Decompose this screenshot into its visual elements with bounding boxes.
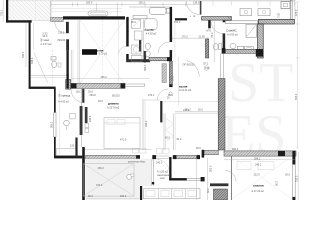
svg-text:80/210: 80/210 xyxy=(58,39,66,42)
furniture above bottom band xyxy=(133,148,139,153)
svg-text:240.2: 240.2 xyxy=(255,163,262,166)
kitchen room thin side walls xyxy=(77,20,79,83)
top-center thick wall xyxy=(63,16,125,19)
svg-text:525.0: 525.0 xyxy=(295,93,298,100)
duct shaft xyxy=(162,64,166,83)
niche walls center xyxy=(144,51,147,63)
vertical hatched wall below bathroom xyxy=(169,61,172,85)
svg-text:120.0: 120.0 xyxy=(70,145,77,148)
svg-text:9.73 м2: 9.73 м2 xyxy=(99,53,108,56)
svg-text:БаняВС: БаняВС xyxy=(145,28,155,32)
wardrobe strip xyxy=(163,114,165,151)
svg-text:кухня: кухня xyxy=(179,85,188,89)
living room xyxy=(80,89,82,147)
svg-text:288.2: 288.2 xyxy=(254,157,261,160)
svg-text:ОП 90/210: ОП 90/210 xyxy=(183,64,196,67)
bottom right room top wall xyxy=(224,151,296,156)
window line right of band xyxy=(125,84,145,86)
svg-text:85.0: 85.0 xyxy=(211,32,214,37)
svg-text:кухненски бокс: кухненски бокс xyxy=(128,160,146,163)
bay bottom thick wall xyxy=(54,156,82,159)
svg-text:236.8: 236.8 xyxy=(89,115,92,122)
svg-text:92.0: 92.0 xyxy=(43,35,48,38)
dim line left of wall xyxy=(25,23,27,67)
axis marker circles xyxy=(204,66,208,70)
terrace dashed extension lines xyxy=(35,0,37,20)
svg-text:343.0: 343.0 xyxy=(22,51,25,58)
kitchen X diagonals xyxy=(80,20,124,83)
big bottom room floor fill xyxy=(86,159,152,200)
svg-text:360.2: 360.2 xyxy=(232,148,239,151)
svg-text:36.2: 36.2 xyxy=(276,181,279,186)
svg-text:52.0: 52.0 xyxy=(277,13,280,18)
svg-text:дневна: дневна xyxy=(108,102,119,106)
svg-text:A 19.78 м2: A 19.78 м2 xyxy=(107,107,120,110)
svg-text:94.0: 94.0 xyxy=(98,100,103,103)
svg-text:спалня: спалня xyxy=(253,183,264,187)
window band y49.5 xyxy=(225,49,257,53)
vertical wall x170 with door gap xyxy=(170,7,173,42)
svg-text:170.2: 170.2 xyxy=(182,36,189,39)
right outside dim line xyxy=(297,152,299,200)
right edge dim line xyxy=(297,2,299,148)
horizontal wall mid-left xyxy=(29,87,56,89)
right wall entry xyxy=(290,0,292,20)
stair tread lines xyxy=(51,7,122,9)
svg-text:ОТ.1: ОТ.1 xyxy=(203,63,209,66)
left wall lower (with window) xyxy=(54,88,56,113)
svg-text:260.8: 260.8 xyxy=(90,94,97,97)
inner line right of wall xyxy=(33,23,35,50)
svg-text:35.2: 35.2 xyxy=(172,76,175,81)
window below xyxy=(221,54,224,79)
toilet bowl xyxy=(51,57,56,60)
vertical wall x126 (door gap y46.5-54) xyxy=(126,17,129,47)
dashed vertical xyxy=(51,50,53,85)
left edge dim beside terrace xyxy=(2,0,4,22)
svg-text:85.0: 85.0 xyxy=(165,137,170,140)
svg-text:28.0: 28.0 xyxy=(196,147,201,150)
top dimension line xyxy=(51,3,201,5)
svg-text:A 4.28 м2: A 4.28 м2 xyxy=(146,33,158,36)
black shaft block xyxy=(82,49,97,55)
svg-text:236.2: 236.2 xyxy=(98,167,105,170)
shaft block at band junction xyxy=(66,80,71,90)
extension ticks xyxy=(51,3,201,16)
terrace bottom wall xyxy=(6,20,32,22)
stair handrail loop xyxy=(88,11,108,16)
svg-text:210.0: 210.0 xyxy=(58,31,65,34)
svg-text:25.0: 25.0 xyxy=(198,108,203,111)
watermark xyxy=(221,52,293,166)
svg-text:365.2: 365.2 xyxy=(50,121,53,128)
svg-text:90.2: 90.2 xyxy=(88,195,93,198)
diagonal leader line xyxy=(34,53,48,83)
svg-text:h/70: h/70 xyxy=(206,30,211,33)
svg-text:8.0: 8.0 xyxy=(228,17,232,20)
hatched column right xyxy=(218,79,225,150)
door below band xyxy=(82,89,84,103)
svg-text:СтаяWC: СтаяWC xyxy=(226,29,237,33)
left exterior wall upper xyxy=(29,20,31,88)
hall dim line y38 xyxy=(172,37,208,39)
WC dim line xyxy=(213,20,215,62)
toilet door leaf 1 xyxy=(66,22,69,33)
entry door top xyxy=(200,1,202,15)
corridor arcs center-left xyxy=(158,89,169,100)
entry south wall piece xyxy=(175,18,187,20)
svg-text:136.0: 136.0 xyxy=(193,2,200,5)
svg-text:21.80: 21.80 xyxy=(199,36,206,39)
toilet room bottom separator xyxy=(31,75,66,77)
bottom hatched band xyxy=(86,155,137,158)
svg-text:470.0: 470.0 xyxy=(96,184,103,187)
right wall with door (x223) xyxy=(223,20,226,22)
svg-text:7/10: 7/10 xyxy=(205,67,210,70)
second arc xyxy=(157,160,169,172)
bay window outline bottom-left xyxy=(57,148,77,156)
svg-text:180.0: 180.0 xyxy=(86,2,93,5)
kitchen door arc xyxy=(187,61,200,77)
closets entry xyxy=(240,9,252,16)
svg-text:136.2: 136.2 xyxy=(139,2,146,5)
svg-text:180.2: 180.2 xyxy=(120,195,127,198)
svg-text:735.0: 735.0 xyxy=(0,9,3,16)
svg-text:471.0: 471.0 xyxy=(120,139,127,142)
bedroom left wall xyxy=(231,156,233,200)
bedroom interior xyxy=(224,159,296,161)
bottom furniture: kitchen counter xyxy=(144,189,201,199)
svg-text:90.0: 90.0 xyxy=(131,21,136,24)
svg-text:125.0: 125.0 xyxy=(295,9,298,16)
window segment right of wall xyxy=(133,16,147,19)
partition double line xyxy=(70,50,72,87)
svg-text:90.2: 90.2 xyxy=(177,138,182,141)
hatched wall right of entry xyxy=(202,17,232,21)
svg-text:150.2: 150.2 xyxy=(174,21,181,24)
svg-text:20.0: 20.0 xyxy=(285,174,290,177)
blocks left of bedroom xyxy=(210,183,228,186)
door leaf + arc xyxy=(137,159,140,168)
svg-text:A 4.07 м2: A 4.07 м2 xyxy=(41,43,53,46)
thin wall piece to sanitary xyxy=(156,155,169,157)
right vertical hatched wall xyxy=(258,24,264,58)
window in left wall xyxy=(54,113,56,138)
terrace hatch top-left xyxy=(8,0,51,20)
svg-text:235.2: 235.2 xyxy=(101,76,108,79)
svg-text:344.2: 344.2 xyxy=(145,120,148,127)
living room left wall bottom xyxy=(82,147,85,200)
svg-text:240.2: 240.2 xyxy=(183,109,190,112)
svg-text:A 4.05 м2: A 4.05 м2 xyxy=(227,33,239,36)
svg-text:тоал: тоал xyxy=(160,177,166,180)
band piece right xyxy=(176,155,197,158)
sanitary room xyxy=(151,159,153,186)
terrace left wall xyxy=(6,0,8,23)
long hatched band mid xyxy=(71,83,125,88)
hatched band top (terrace to wall) xyxy=(51,17,64,21)
toilet door leaf 2 + wall below xyxy=(66,39,69,50)
svg-text:240.0: 240.0 xyxy=(156,162,163,165)
svg-text:313.0: 313.0 xyxy=(295,175,298,182)
svg-text:270.2: 270.2 xyxy=(148,94,155,97)
svg-text:362.0: 362.0 xyxy=(210,165,213,172)
WC left hatched wall xyxy=(205,39,208,58)
building top edge xyxy=(51,0,295,2)
svg-text:Ⓢ тоал: Ⓢ тоал xyxy=(40,38,50,42)
svg-text:394.0: 394.0 xyxy=(144,64,147,71)
bathroom2 bottom wall hatched xyxy=(149,57,172,60)
top right thick wall xyxy=(258,19,294,24)
bath1 top thin wall xyxy=(225,21,257,24)
svg-text:A 17.23 м2: A 17.23 м2 xyxy=(252,190,265,193)
svg-text:343.0: 343.0 xyxy=(31,57,34,64)
right window xyxy=(293,165,296,198)
svg-text:90/210: 90/210 xyxy=(112,95,120,98)
svg-text:A 16.01 м2: A 16.01 м2 xyxy=(179,89,192,92)
dim line above band xyxy=(72,78,150,80)
bathroom2 xyxy=(129,6,172,8)
